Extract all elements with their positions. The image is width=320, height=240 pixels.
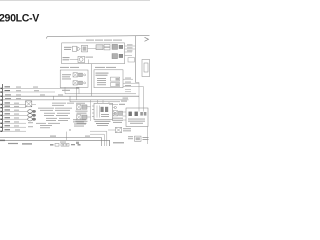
wire: U1 pins to right rail xyxy=(125,45,136,47)
pin labels right of U3 xyxy=(125,77,131,80)
wire row y111.4 xyxy=(3,109,28,111)
text block above bottom brackets xyxy=(73,118,86,121)
label inside U1 row1 xyxy=(64,47,72,48)
connector glyph row1 xyxy=(28,110,36,113)
wire xyxy=(88,48,97,50)
label inside U3 xyxy=(96,73,109,74)
wire: vertical junction xyxy=(90,100,92,121)
label: SWING LAMP ASSY OPT xyxy=(60,67,69,68)
wires into U5 xyxy=(123,112,127,120)
center label column rows xyxy=(52,102,66,105)
connector CN1 xyxy=(96,45,103,50)
label under U2 xyxy=(62,90,70,91)
wire: ground bracket 1 xyxy=(90,131,107,146)
wire y104.6 right segment xyxy=(109,104,118,106)
fuse box F2 xyxy=(119,45,123,48)
small box right xyxy=(128,58,135,62)
label inside U2 xyxy=(62,73,71,76)
intermittent relay box xyxy=(82,45,88,52)
connector glyph row2 xyxy=(28,114,36,117)
wire: drop from U2 to bus xyxy=(64,87,66,94)
relay K1 xyxy=(73,46,77,51)
swing lamp assy box U2 xyxy=(60,70,88,87)
bus line 0 xyxy=(65,93,136,95)
fuse X-box bottom xyxy=(108,127,131,132)
fuse box F1 xyxy=(112,44,118,49)
wire row y119.2 xyxy=(3,117,28,119)
wire: main feed line to cluster U1 xyxy=(47,36,141,39)
wire row y131.2 xyxy=(3,129,27,131)
label: ROLLING CABIN ASSY OPT xyxy=(86,40,94,41)
bus junction ticks xyxy=(54,96,71,102)
footer mark x76 xyxy=(76,142,79,144)
breaker box with X xyxy=(26,101,37,107)
left rail edge ticks xyxy=(0,88,2,89)
wire xyxy=(70,58,79,60)
label right of motor xyxy=(86,57,94,58)
wire: vertical dropper right rail xyxy=(135,36,137,83)
transistor amp symbol xyxy=(78,47,81,51)
cluster gauge box U4 xyxy=(92,100,113,120)
wire right group drops xyxy=(125,89,131,92)
pin labels xyxy=(127,43,133,46)
wiper motor group 2 xyxy=(76,115,88,124)
bus line 1 xyxy=(3,95,140,97)
footer marks center xyxy=(50,144,54,146)
bottom right diode group xyxy=(128,127,149,145)
fuse box F3 xyxy=(112,54,118,59)
wire row y115.3 xyxy=(3,113,28,115)
footer text left xyxy=(8,143,18,144)
label: REMOTE BLOWER OPT xyxy=(95,67,105,68)
wiper control unit box U1 xyxy=(62,43,125,64)
frame line left dark end xyxy=(0,140,5,141)
connector CN2 xyxy=(104,44,110,47)
wiper motor M1 xyxy=(78,56,85,62)
node: off-page connector arrow xyxy=(145,37,149,41)
svg-text:290LC-V: 290LC-V xyxy=(0,13,39,25)
label above bus1 xyxy=(5,94,11,95)
frame bottom line xyxy=(0,140,110,146)
left rail xyxy=(2,84,4,131)
wire row y92 xyxy=(3,90,56,92)
wire: vertical x66.5 xyxy=(66,132,68,141)
wire: ground bracket 2 xyxy=(90,134,104,146)
connector CN3 xyxy=(111,77,120,81)
bus line 3 xyxy=(70,101,120,103)
wire: drops from U2 right xyxy=(77,87,80,100)
node small dot xyxy=(69,129,70,130)
footer text right xyxy=(113,142,124,143)
remote blower box U3 xyxy=(94,70,123,88)
label inside U1 row2 xyxy=(63,57,70,58)
label below U4 xyxy=(95,121,111,122)
fuse box F4 xyxy=(119,54,123,57)
wire stub xyxy=(88,59,90,63)
wiper motor group 1 xyxy=(76,103,88,114)
connector CN4 xyxy=(111,83,120,87)
wire row y104.4 with breaker xyxy=(3,102,26,104)
lamp L1 xyxy=(73,73,78,77)
wire U3 to right drop rails xyxy=(123,79,144,86)
top page edge line xyxy=(0,0,150,2)
wire row y123.2 xyxy=(3,121,34,123)
wire row y127.2 xyxy=(3,125,34,127)
label above bus2 xyxy=(5,98,11,99)
wire row y107.6 xyxy=(3,106,27,108)
U4 right terminals xyxy=(113,108,115,114)
connector glyph row3 xyxy=(28,118,36,121)
lamp L2 xyxy=(73,81,78,85)
wire: drop from U1 to bus xyxy=(91,64,93,96)
wire row y88.3 xyxy=(3,86,80,88)
long wire y137.6 xyxy=(0,138,102,146)
air con unit box xyxy=(142,60,150,77)
controller box U5 xyxy=(126,108,148,127)
bus line 2 xyxy=(3,99,129,101)
washer tank group xyxy=(112,111,123,123)
